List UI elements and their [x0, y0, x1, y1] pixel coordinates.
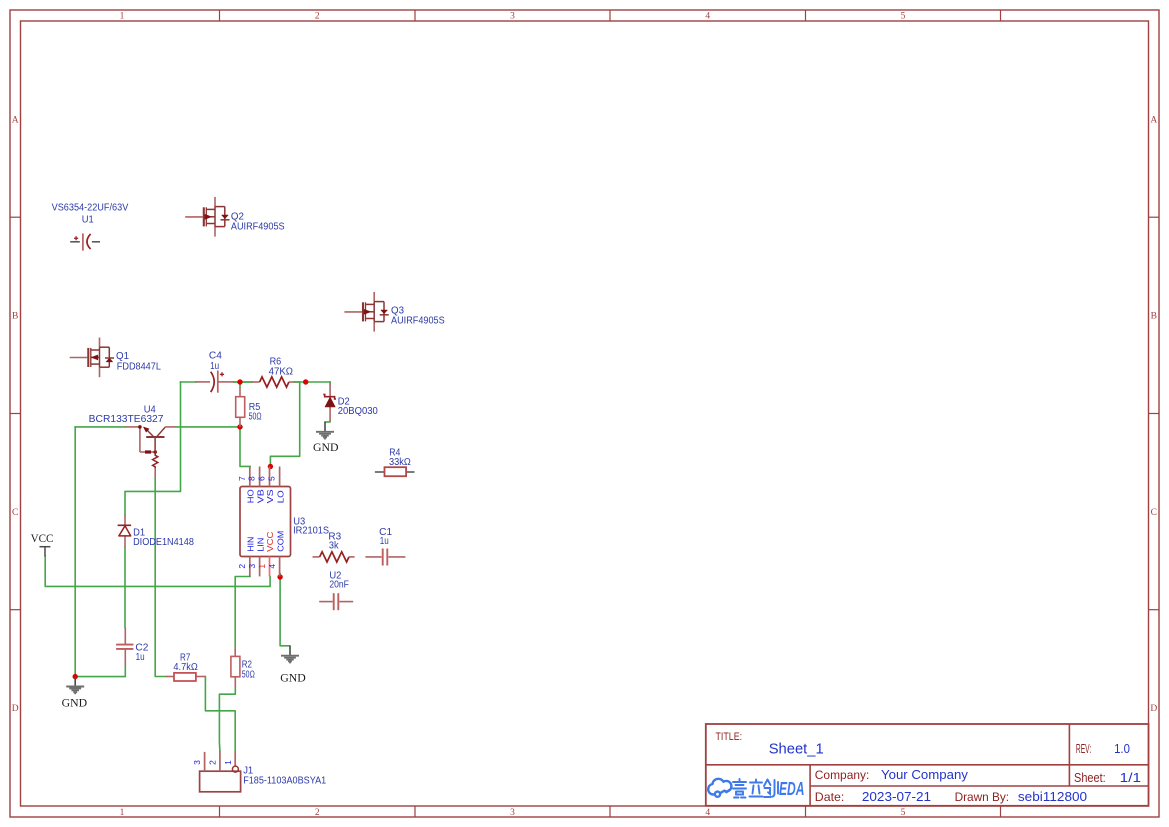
svg-text:B: B [1151, 312, 1157, 322]
svg-text:20nF: 20nF [329, 580, 349, 591]
svg-text:5: 5 [901, 12, 906, 22]
svg-text:Your Company: Your Company [881, 767, 968, 782]
svg-text:50Ω: 50Ω [242, 670, 255, 681]
svg-text:FDD8447L: FDD8447L [117, 361, 161, 372]
svg-text:GND: GND [280, 672, 306, 684]
svg-text:IR2101S: IR2101S [293, 526, 329, 537]
svg-text:1u: 1u [210, 361, 219, 372]
svg-text:7: 7 [237, 476, 247, 481]
svg-text:B: B [12, 312, 18, 322]
svg-text:20BQ030: 20BQ030 [338, 406, 379, 417]
svg-text:C: C [12, 508, 18, 518]
svg-text:Drawn By:: Drawn By: [955, 790, 1010, 804]
svg-text:1: 1 [223, 760, 233, 765]
svg-text:2023-07-21: 2023-07-21 [862, 789, 931, 804]
svg-text:VS: VS [265, 489, 275, 503]
svg-text:1u: 1u [380, 536, 389, 547]
svg-text:8: 8 [247, 476, 257, 481]
svg-text:3: 3 [510, 808, 515, 818]
svg-text:GND: GND [313, 442, 339, 454]
svg-text:D: D [1150, 704, 1157, 714]
svg-text:GND: GND [62, 698, 88, 710]
svg-text:47KΩ: 47KΩ [269, 366, 294, 377]
svg-text:VS6354-22UF/63V: VS6354-22UF/63V [52, 203, 129, 214]
svg-text:1/1: 1/1 [1120, 771, 1141, 785]
svg-text:COM: COM [275, 531, 285, 552]
svg-text:sebi112800: sebi112800 [1018, 789, 1087, 804]
svg-text:D: D [12, 704, 19, 714]
svg-text:1: 1 [120, 808, 125, 818]
svg-text:TITLE:: TITLE: [716, 731, 743, 743]
svg-text:33kΩ: 33kΩ [389, 457, 411, 468]
svg-text:VCC: VCC [265, 532, 275, 552]
svg-text:AUIRF4905S: AUIRF4905S [231, 222, 285, 233]
svg-text:DIODE1N4148: DIODE1N4148 [133, 537, 194, 548]
svg-text:1u: 1u [136, 652, 145, 663]
svg-text:2: 2 [315, 12, 320, 22]
svg-text:50Ω: 50Ω [249, 411, 262, 422]
svg-text:LIN: LIN [255, 538, 265, 552]
svg-text:5: 5 [901, 808, 906, 818]
svg-text:4: 4 [705, 12, 710, 22]
svg-text:HIN: HIN [246, 537, 256, 552]
svg-text:VB: VB [255, 489, 265, 503]
svg-text:EDA: EDA [779, 778, 805, 799]
svg-text:AUIRF4905S: AUIRF4905S [391, 316, 445, 327]
svg-text:VCC: VCC [31, 531, 54, 545]
svg-text:BCR133TE6327: BCR133TE6327 [89, 414, 164, 425]
svg-text:2: 2 [237, 564, 247, 569]
svg-text:Company:: Company: [815, 768, 870, 782]
svg-text:5: 5 [267, 476, 277, 481]
svg-text:A: A [12, 115, 19, 125]
svg-text:C4: C4 [209, 350, 222, 361]
svg-text:F185-1103A0BSYA1: F185-1103A0BSYA1 [243, 776, 326, 787]
svg-text:Sheet_1: Sheet_1 [769, 741, 824, 757]
svg-text:3: 3 [247, 564, 257, 569]
svg-text:6: 6 [257, 476, 267, 481]
svg-text:REV:: REV: [1076, 742, 1091, 756]
svg-text:Date:: Date: [815, 790, 845, 804]
svg-text:4.7kΩ: 4.7kΩ [173, 662, 198, 673]
svg-text:1: 1 [120, 12, 125, 22]
svg-text:A: A [1150, 115, 1157, 125]
svg-text:1.0: 1.0 [1114, 742, 1130, 756]
svg-text:4: 4 [267, 564, 277, 569]
svg-text:2: 2 [208, 760, 218, 765]
svg-text:2: 2 [315, 808, 320, 818]
svg-text:HO: HO [246, 489, 256, 503]
svg-text:U1: U1 [82, 214, 94, 225]
svg-text:4: 4 [705, 808, 710, 818]
svg-text:3: 3 [192, 760, 202, 765]
svg-text:3k: 3k [329, 540, 340, 551]
svg-text:LO: LO [275, 490, 285, 503]
svg-text:C: C [1151, 508, 1157, 518]
svg-text:3: 3 [510, 12, 515, 22]
svg-text:1: 1 [257, 564, 267, 569]
svg-text:Sheet:: Sheet: [1074, 771, 1106, 785]
